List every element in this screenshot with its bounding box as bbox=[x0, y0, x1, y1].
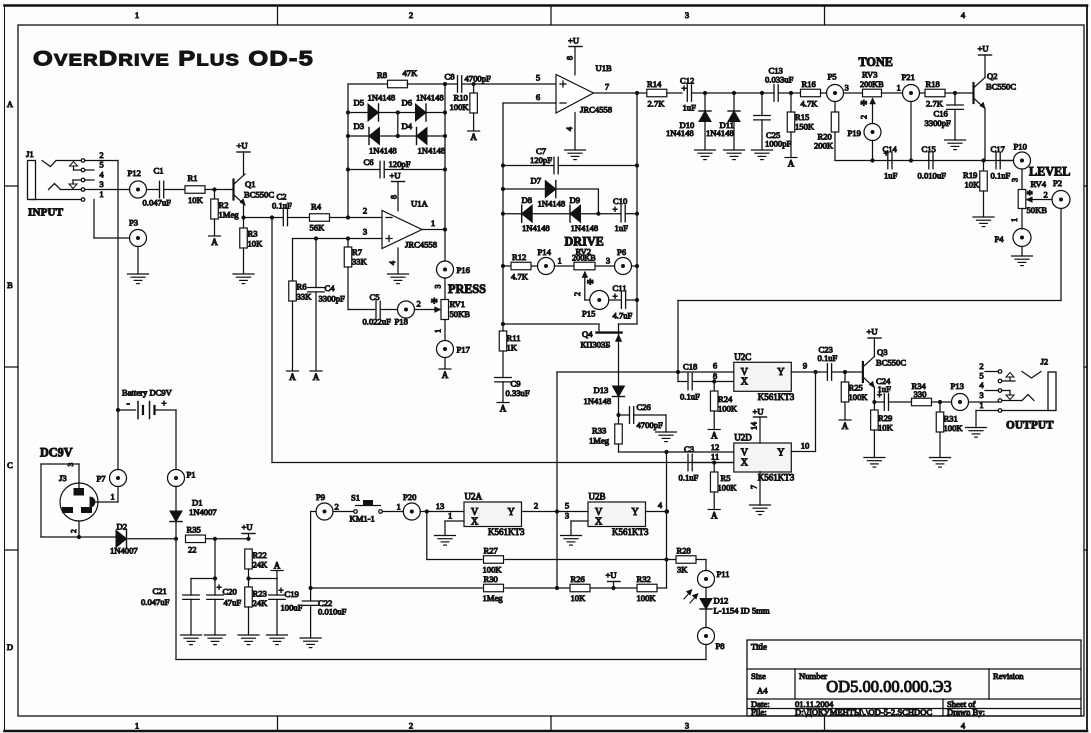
svg-text:C8: C8 bbox=[445, 72, 455, 82]
svg-text:3: 3 bbox=[1011, 178, 1020, 182]
transistor Q3 BC550C bbox=[845, 347, 906, 388]
J1 switch arrow down (pin 4 lever) bbox=[69, 180, 81, 189]
capacitor C1 bbox=[143, 166, 186, 208]
ground below D10 bbox=[695, 150, 716, 160]
net A below R5 bbox=[708, 492, 720, 521]
svg-text:U1B: U1B bbox=[596, 63, 613, 73]
svg-text:X: X bbox=[741, 377, 749, 388]
wire D7 down to D9 node bbox=[596, 189, 600, 216]
diode D9 1N4148 bbox=[570, 195, 599, 233]
svg-text:B: B bbox=[7, 280, 13, 290]
U1B pin8 +U supply bbox=[566, 36, 583, 75]
net A below R10 bbox=[468, 113, 480, 142]
vertical bus R33 node to R32 bbox=[664, 452, 669, 588]
svg-text:P5: P5 bbox=[828, 72, 837, 82]
svg-text:6: 6 bbox=[713, 361, 718, 371]
resistor R33 1Meg bbox=[589, 415, 622, 446]
svg-text:D5: D5 bbox=[354, 98, 365, 108]
svg-text:R10: R10 bbox=[454, 93, 468, 103]
long feedback wire from Q1 emitter to C3 row bbox=[272, 218, 734, 463]
svg-text:D8: D8 bbox=[522, 195, 533, 205]
svg-text:R4: R4 bbox=[311, 201, 322, 211]
svg-text:2: 2 bbox=[860, 115, 869, 119]
svg-text:R14: R14 bbox=[647, 79, 662, 89]
svg-text:0.022uF: 0.022uF bbox=[363, 317, 392, 327]
resistor R12 bbox=[503, 252, 538, 282]
svg-text:-: - bbox=[127, 399, 130, 410]
svg-text:C20: C20 bbox=[223, 587, 237, 597]
svg-text:1: 1 bbox=[135, 721, 139, 731]
switch S1 KM1-1 bbox=[333, 493, 403, 524]
J1 pin 1 contact bbox=[31, 189, 104, 201]
wire RV2 to P6 bbox=[595, 256, 615, 267]
svg-text:2.7K: 2.7K bbox=[648, 99, 666, 109]
svg-text:PRESS: PRESS bbox=[448, 282, 486, 296]
svg-text:5: 5 bbox=[565, 501, 569, 511]
J2 pin 5 contact bbox=[979, 371, 1015, 383]
resistor R26 10K bbox=[570, 574, 590, 603]
capacitor C26 4700pF bbox=[616, 402, 666, 430]
resistor R3 bbox=[240, 228, 263, 249]
capacitor C21 bbox=[141, 579, 215, 636]
svg-text:4.7K: 4.7K bbox=[511, 272, 529, 282]
wire bus from J1 pin2 down to battery bbox=[117, 161, 119, 411]
capacitor C4 bbox=[308, 239, 345, 304]
svg-text:C4: C4 bbox=[325, 283, 336, 293]
svg-text:P13: P13 bbox=[951, 381, 964, 391]
svg-text:R26: R26 bbox=[571, 574, 586, 584]
svg-text:+: + bbox=[884, 149, 889, 159]
svg-text:R3: R3 bbox=[248, 229, 258, 239]
diode D5 1N4148 bbox=[348, 93, 398, 122]
svg-text:C1: C1 bbox=[154, 166, 164, 176]
test point P17 bbox=[437, 341, 471, 358]
resistor R8 bbox=[348, 68, 445, 88]
svg-text:0.1uF: 0.1uF bbox=[991, 171, 1011, 181]
svg-text:D13: D13 bbox=[594, 385, 609, 395]
svg-text:A: A bbox=[788, 159, 795, 169]
svg-text:3: 3 bbox=[845, 83, 849, 93]
test point P3 bbox=[129, 218, 147, 247]
svg-text:1N4148: 1N4148 bbox=[369, 146, 397, 156]
TONE label bbox=[859, 55, 893, 69]
svg-text:47K: 47K bbox=[403, 68, 419, 78]
svg-text:2: 2 bbox=[409, 721, 413, 731]
wire Q2 emitter to tone row bbox=[984, 109, 986, 161]
wire R32 up to R28 node bbox=[657, 587, 667, 589]
resistor R1 bbox=[185, 173, 205, 205]
capacitor C9 bbox=[495, 351, 530, 403]
wire Q3 emitter node bbox=[872, 388, 884, 411]
output jack J2 bbox=[1022, 357, 1056, 411]
U1A pin1 output wire bbox=[422, 218, 447, 232]
svg-text:1N4148: 1N4148 bbox=[538, 199, 566, 209]
potentiometer RV1 50KB bbox=[441, 299, 470, 320]
svg-text:6: 6 bbox=[536, 92, 541, 102]
svg-text:0.010uF: 0.010uF bbox=[918, 171, 947, 181]
U1A pin 4 to ground bbox=[388, 248, 409, 284]
net A below R24 bbox=[708, 411, 720, 441]
svg-text:C9: C9 bbox=[511, 379, 521, 389]
resistor R29 10K bbox=[871, 410, 894, 433]
wire P10 to RV4 bbox=[1011, 169, 1023, 190]
capacitor C11 4.7uF bbox=[609, 283, 637, 321]
svg-text:J2: J2 bbox=[1041, 357, 1049, 367]
potentiometer RV3 200KB bbox=[844, 70, 903, 97]
wire P19 to tone row bbox=[872, 141, 874, 161]
+U supply tap at R26-R32 bbox=[590, 570, 637, 590]
svg-text:P15: P15 bbox=[582, 309, 595, 319]
svg-text:3: 3 bbox=[66, 463, 75, 467]
svg-text:3: 3 bbox=[685, 721, 689, 731]
svg-text:Y: Y bbox=[508, 507, 515, 518]
wire P7 to J3 pin1 bbox=[93, 487, 118, 503]
svg-text:BC550C: BC550C bbox=[876, 358, 906, 368]
svg-text:330: 330 bbox=[914, 389, 927, 399]
svg-text:9: 9 bbox=[803, 361, 807, 371]
svg-text:1: 1 bbox=[979, 400, 983, 410]
DC9V label bbox=[40, 446, 73, 460]
test point P13 bbox=[951, 381, 969, 411]
svg-text:10K: 10K bbox=[571, 593, 587, 603]
wire P20 to U2A pin13 bbox=[420, 501, 464, 514]
svg-text:2: 2 bbox=[99, 150, 103, 160]
diode D4 1N4148 bbox=[398, 121, 445, 156]
svg-text:BC550C: BC550C bbox=[244, 190, 274, 200]
svg-text:10: 10 bbox=[801, 441, 810, 451]
diode D10 1N4148 bbox=[666, 91, 711, 150]
resistor R7 bbox=[344, 239, 367, 268]
svg-text:Y: Y bbox=[777, 367, 784, 378]
svg-text:4.7K: 4.7K bbox=[801, 99, 819, 109]
svg-text:A: A bbox=[313, 372, 320, 382]
wire R27 to R28 node bbox=[505, 559, 667, 561]
wire R18 to Q2 base bbox=[945, 91, 972, 95]
svg-text:R11: R11 bbox=[507, 333, 521, 343]
svg-text:Q3: Q3 bbox=[877, 347, 888, 357]
svg-text:P3: P3 bbox=[129, 218, 138, 228]
svg-text:S1: S1 bbox=[351, 493, 360, 503]
U2B pin4 output wire bbox=[646, 500, 669, 514]
wire R33 to U2D pin12 bbox=[619, 442, 734, 454]
svg-text:7: 7 bbox=[605, 82, 610, 92]
svg-text:7: 7 bbox=[750, 485, 759, 489]
svg-text:P17: P17 bbox=[457, 345, 471, 355]
svg-text:P16: P16 bbox=[457, 265, 471, 275]
svg-text:1N4007: 1N4007 bbox=[110, 546, 138, 556]
svg-text:1N4148: 1N4148 bbox=[571, 223, 599, 233]
left bus of drive block bbox=[501, 103, 505, 331]
test point P4 bbox=[995, 229, 1032, 247]
svg-text:0.1uF: 0.1uF bbox=[680, 392, 700, 402]
svg-text:R32: R32 bbox=[637, 574, 651, 584]
svg-text:1N4148: 1N4148 bbox=[522, 223, 550, 233]
ground below R19 bbox=[973, 191, 994, 227]
svg-text:3K: 3K bbox=[677, 565, 688, 575]
svg-text:8: 8 bbox=[713, 371, 717, 381]
svg-text:D9: D9 bbox=[570, 195, 581, 205]
svg-text:10K: 10K bbox=[965, 180, 981, 190]
svg-text:K561KT3: K561KT3 bbox=[488, 527, 525, 537]
svg-text:КП303Б: КП303Б bbox=[581, 340, 611, 350]
svg-text:2: 2 bbox=[534, 501, 538, 511]
capacitor C12 1uF bbox=[680, 76, 705, 113]
resistor R32 100K bbox=[637, 574, 658, 603]
svg-text:2: 2 bbox=[69, 529, 78, 533]
capacitor C2 bbox=[272, 192, 309, 226]
resistor R14 bbox=[647, 79, 682, 109]
title block bbox=[747, 640, 1081, 717]
svg-text:0.1uF: 0.1uF bbox=[679, 473, 699, 483]
wire J3 shell loop bbox=[41, 463, 79, 538]
svg-text:R25: R25 bbox=[849, 383, 863, 393]
ground below C16 bbox=[945, 140, 966, 150]
svg-text:A: A bbox=[711, 511, 718, 521]
resistor R19 bbox=[963, 161, 987, 192]
svg-text:+: + bbox=[682, 84, 687, 94]
svg-text:1: 1 bbox=[397, 502, 401, 512]
LEVEL label bbox=[1029, 165, 1070, 179]
U2D pin10 output wire bbox=[791, 441, 815, 452]
ground below C26 bbox=[656, 415, 677, 442]
svg-text:Battery DC9V: Battery DC9V bbox=[122, 388, 173, 398]
DRIVE label bbox=[565, 235, 604, 249]
svg-text:5: 5 bbox=[536, 73, 540, 83]
+U supply tap bbox=[242, 522, 256, 539]
potentiometer RV4 50KB bbox=[1018, 179, 1047, 215]
resistor R10 bbox=[450, 84, 478, 113]
svg-text:U2B: U2B bbox=[589, 492, 606, 502]
net A below R15 bbox=[785, 132, 797, 169]
svg-text:P9: P9 bbox=[316, 492, 325, 502]
svg-text:P2: P2 bbox=[1053, 178, 1062, 188]
svg-text:R22: R22 bbox=[253, 550, 267, 560]
svg-text:24K: 24K bbox=[253, 560, 269, 570]
svg-text:1N4148: 1N4148 bbox=[416, 93, 444, 103]
resistor R18 bbox=[920, 79, 946, 109]
battery DC9V bbox=[116, 388, 176, 419]
wire Q1 emitter node bbox=[241, 205, 283, 228]
svg-text:1N4148: 1N4148 bbox=[368, 93, 396, 103]
net A below C9 bbox=[497, 403, 509, 414]
svg-text:47uF: 47uF bbox=[224, 598, 242, 608]
svg-text:C5: C5 bbox=[370, 292, 380, 302]
wire C8 to U1B pin5 bbox=[472, 73, 557, 87]
wire R1 to Q1 base bbox=[205, 187, 232, 191]
svg-text:R1: R1 bbox=[188, 173, 198, 183]
svg-text:1000pF: 1000pF bbox=[765, 139, 791, 149]
node A divider junction bbox=[246, 569, 277, 587]
svg-text:A: A bbox=[842, 421, 849, 431]
RV3 wiper arrow bbox=[860, 98, 876, 124]
svg-text:200KB: 200KB bbox=[860, 80, 884, 89]
ground below C22 bbox=[300, 638, 321, 648]
svg-text:R12: R12 bbox=[512, 252, 526, 262]
svg-text:1N4148: 1N4148 bbox=[706, 128, 734, 138]
svg-text:D6: D6 bbox=[402, 98, 413, 108]
test point P9 bbox=[316, 492, 339, 520]
vertical bus U2A-U2B-R27 link bbox=[556, 372, 558, 588]
LED D12 L-1154 bbox=[700, 588, 770, 628]
svg-text:4: 4 bbox=[979, 380, 984, 390]
svg-text:+U: +U bbox=[978, 44, 990, 54]
wire R35 to +U node bbox=[206, 537, 251, 541]
svg-text:P1: P1 bbox=[187, 470, 196, 480]
svg-text:1Meg: 1Meg bbox=[589, 436, 610, 446]
wire R4 to U1A pin2 bbox=[330, 206, 383, 220]
transistor Q2 BC550C bbox=[974, 71, 1017, 109]
ground below P4 bbox=[1012, 247, 1033, 266]
J1 pin 5 contact bbox=[81, 160, 103, 172]
wire R28 to P11 bbox=[696, 560, 706, 571]
svg-text:C: C bbox=[7, 460, 13, 470]
U1B pin4 ground bbox=[565, 113, 586, 160]
svg-text:10K: 10K bbox=[248, 239, 264, 249]
test point P10 bbox=[1014, 142, 1031, 170]
svg-text:100K: 100K bbox=[849, 392, 869, 402]
svg-text:1: 1 bbox=[431, 218, 435, 228]
svg-text:D: D bbox=[7, 642, 13, 652]
svg-text:L-1154 ID 5mm: L-1154 ID 5mm bbox=[714, 606, 770, 616]
svg-text:Revision: Revision bbox=[993, 671, 1024, 681]
svg-text:1N4148: 1N4148 bbox=[418, 146, 446, 156]
svg-text:File:: File: bbox=[751, 707, 767, 717]
analog switch U2C K561KT3 bbox=[734, 352, 795, 402]
diode D8 1N4148 bbox=[503, 195, 570, 233]
U1A pin3 wire bbox=[293, 227, 383, 241]
svg-text:120pF: 120pF bbox=[389, 159, 411, 169]
svg-text:K561KT3: K561KT3 bbox=[758, 473, 795, 483]
svg-text:X: X bbox=[741, 457, 749, 468]
wire J1 pin3 to P12 bbox=[85, 189, 130, 191]
svg-text:Size: Size bbox=[751, 671, 766, 681]
test point P7 bbox=[97, 410, 127, 487]
ground below C20 bbox=[205, 635, 226, 645]
svg-text:100K: 100K bbox=[450, 102, 470, 112]
wire RV1 pin1 to P17 bbox=[434, 320, 446, 341]
svg-text:3: 3 bbox=[979, 390, 983, 400]
svg-text:0.010uF: 0.010uF bbox=[318, 607, 347, 617]
ground below R3 bbox=[233, 248, 254, 284]
svg-text:J1: J1 bbox=[26, 149, 34, 159]
svg-text:R33: R33 bbox=[592, 426, 606, 436]
RV2 wiper arrow bbox=[573, 272, 594, 301]
diode D6 1N4148 bbox=[398, 93, 445, 122]
svg-text:100K: 100K bbox=[483, 565, 503, 575]
wire P20 node down to R27 bbox=[427, 512, 482, 560]
resistor R28 3K bbox=[667, 546, 697, 575]
svg-text:5: 5 bbox=[979, 371, 983, 381]
svg-text:A: A bbox=[274, 560, 281, 570]
wire R7 to C5 bbox=[348, 267, 376, 310]
resistor R11 bbox=[499, 331, 520, 353]
svg-text:R15: R15 bbox=[795, 112, 809, 122]
J1 pin 4 contact bbox=[81, 170, 104, 182]
J2 switch arrow down bbox=[1006, 391, 1014, 400]
resistor R23 24K bbox=[245, 587, 268, 608]
net A below R6 bbox=[287, 301, 299, 382]
svg-text:R27: R27 bbox=[484, 546, 499, 556]
capacitor C17 bbox=[991, 144, 1014, 181]
capacitor C14 1uF bbox=[883, 144, 898, 181]
wire R20 bottom to tone row bbox=[835, 132, 1013, 163]
diode D3 1N4148 bbox=[348, 121, 398, 156]
svg-text:A: A bbox=[500, 404, 507, 414]
svg-text:KM1-1: KM1-1 bbox=[350, 514, 375, 524]
svg-text:10K: 10K bbox=[878, 423, 894, 433]
svg-text:R35: R35 bbox=[187, 525, 201, 535]
svg-text:13: 13 bbox=[436, 501, 445, 511]
svg-text:C16: C16 bbox=[934, 109, 949, 119]
svg-text:4700pF: 4700pF bbox=[465, 74, 491, 84]
svg-text:JRC4558: JRC4558 bbox=[580, 105, 612, 115]
capacitor C6 bbox=[348, 157, 445, 178]
potentiometer RV2 200KB bbox=[572, 247, 596, 270]
svg-text:1uF: 1uF bbox=[884, 171, 898, 181]
resistor R25 100K bbox=[841, 370, 868, 402]
svg-text:P21: P21 bbox=[902, 72, 915, 82]
svg-text:4.7uF: 4.7uF bbox=[613, 311, 633, 321]
svg-text:200KB: 200KB bbox=[572, 254, 596, 263]
svg-text:+: + bbox=[217, 583, 222, 593]
schematic title OverDrive Plus OD-5 bbox=[33, 48, 314, 71]
svg-text:P7: P7 bbox=[97, 474, 107, 484]
svg-text:OUTPUT: OUTPUT bbox=[1006, 420, 1054, 432]
svg-text:3: 3 bbox=[606, 256, 610, 266]
svg-text:A: A bbox=[470, 132, 477, 142]
svg-text:R16: R16 bbox=[802, 79, 817, 89]
wire J1 pin1 down to P3 bbox=[94, 200, 130, 239]
svg-text:3: 3 bbox=[685, 10, 689, 20]
svg-text:U1A: U1A bbox=[411, 199, 429, 209]
svg-text:P10: P10 bbox=[1014, 142, 1027, 152]
svg-text:2: 2 bbox=[409, 10, 413, 20]
svg-text:A: A bbox=[211, 237, 218, 247]
svg-text:1Meg: 1Meg bbox=[483, 593, 504, 603]
wiper arrow into RV1 bbox=[415, 296, 441, 313]
svg-text:100K: 100K bbox=[637, 593, 657, 603]
svg-text:12: 12 bbox=[711, 442, 720, 452]
net A below R2 bbox=[209, 219, 221, 247]
J2 pin 2 contact bbox=[979, 361, 1001, 373]
wire R30 to R26 bbox=[505, 586, 570, 590]
svg-text:R2: R2 bbox=[219, 200, 229, 210]
svg-text:1: 1 bbox=[99, 189, 103, 199]
left bus of clipping block bbox=[346, 84, 350, 218]
svg-text:0.047uF: 0.047uF bbox=[141, 597, 170, 607]
diode D11 1N4148 bbox=[706, 93, 740, 150]
svg-text:+: + bbox=[279, 586, 284, 596]
svg-text:K561KT3: K561KT3 bbox=[612, 527, 649, 537]
wire RV4 pin1 to P4 bbox=[1010, 209, 1022, 230]
svg-text:D:\ДОКУМЕНТЫ\.\OD-5-2.SCHDOC: D:\ДОКУМЕНТЫ\.\OD-5-2.SCHDOC bbox=[795, 707, 932, 717]
svg-text:22: 22 bbox=[188, 545, 197, 555]
svg-text:Number: Number bbox=[799, 671, 827, 681]
U2A pin1 ground bbox=[435, 511, 465, 546]
diode D1 1N4007 bbox=[170, 487, 217, 539]
bottom rail wire bbox=[176, 659, 706, 661]
svg-text:11: 11 bbox=[711, 452, 719, 462]
net A above C19 bbox=[271, 560, 283, 578]
svg-text:50KB: 50KB bbox=[450, 309, 471, 319]
svg-text:100K: 100K bbox=[944, 423, 964, 433]
U2B pin3 ground bbox=[561, 511, 589, 546]
svg-text:+: + bbox=[877, 390, 882, 400]
test point P20 bbox=[397, 492, 421, 520]
svg-text:+U: +U bbox=[242, 522, 254, 532]
test point P19 bbox=[848, 124, 882, 141]
LED arrows bbox=[684, 589, 699, 603]
